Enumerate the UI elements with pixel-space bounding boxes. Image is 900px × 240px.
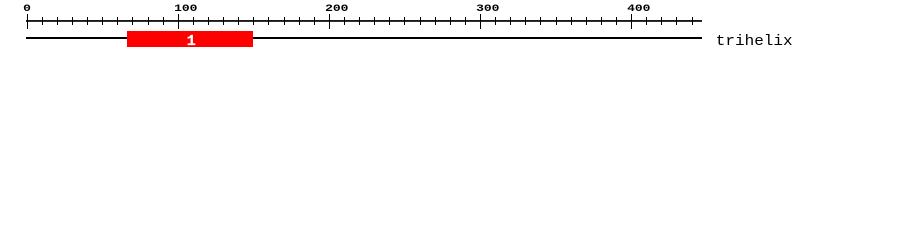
- ruler major tick 400: [631, 14, 632, 29]
- svg-text:200: 200: [325, 3, 348, 14]
- svg-text:0: 0: [23, 3, 31, 14]
- ruler major tick 200: [329, 14, 330, 29]
- ruler minor ticks: [42, 17, 693, 25]
- domain box 1 (trihelix): [127, 31, 253, 47]
- background: [0, 0, 900, 58]
- svg-text:trihelix: trihelix: [716, 33, 793, 50]
- ruler baseline: [26, 20, 702, 22]
- svg-text:1: 1: [187, 33, 196, 50]
- ruler major tick 300: [480, 14, 481, 29]
- ruler major tick 0: [27, 14, 28, 29]
- svg-text:100: 100: [174, 3, 197, 14]
- protein backbone line: [26, 37, 702, 39]
- svg-text:300: 300: [476, 3, 499, 14]
- svg-text:400: 400: [627, 3, 650, 14]
- ruler major tick 100: [178, 14, 179, 29]
